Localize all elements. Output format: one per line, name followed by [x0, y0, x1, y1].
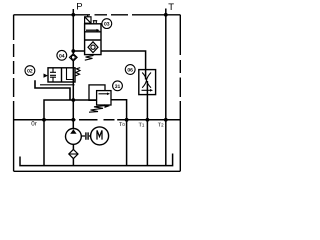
svg-text:31: 31	[115, 84, 121, 90]
svg-text:03: 03	[104, 22, 110, 28]
junction dot 0r	[42, 118, 46, 122]
wire pump to strainer	[72, 144, 74, 165]
wire y100 corner from 0r branch to valve 31	[44, 100, 97, 120]
coupling shaft	[81, 135, 90, 137]
valve 03 body box	[85, 24, 101, 55]
balloon 02	[25, 66, 35, 76]
wire y51 from P to valve 03	[73, 50, 84, 52]
wire T riser	[165, 9, 167, 166]
wire manifold T solid right part	[117, 119, 180, 121]
flow valve 06 throttle arcs	[142, 73, 151, 88]
valve 02 drain bracket	[35, 80, 70, 100]
valve 31 front box	[97, 91, 111, 105]
valve 02 subplate line	[40, 84, 75, 86]
suction strainer diamond	[69, 149, 78, 158]
valve 03 solenoid box	[85, 17, 91, 23]
valve 31 arrow	[99, 93, 108, 95]
suction strainer chord	[69, 153, 78, 155]
junction dot P on border	[71, 13, 75, 17]
coupling bars	[86, 132, 88, 139]
valve 31 spring below	[89, 105, 109, 112]
pump circle	[66, 129, 82, 145]
enclosure border right	[179, 15, 181, 172]
wire P riser	[72, 9, 74, 129]
balloon 03	[102, 19, 112, 29]
svg-text:P: P	[76, 1, 82, 12]
wire y51 from valve 03 to corner and down to valve 06	[101, 51, 146, 70]
junction dot P at y51	[71, 49, 75, 53]
valve 03 cell1 flow arrow	[86, 29, 97, 31]
valve 02 pilot arrowhead left	[44, 74, 49, 78]
valve 02 body boxes	[48, 68, 75, 82]
motor M letter	[97, 130, 102, 139]
junction dot T0	[125, 118, 129, 122]
enclosure border top	[14, 14, 181, 16]
valve 03 check diamond	[88, 42, 98, 53]
valve 02 left cell symbols	[50, 68, 56, 82]
check valve 04 ball	[71, 56, 75, 60]
balloon 04	[57, 50, 67, 60]
enclosure border bottom	[14, 170, 181, 172]
junction dot P at y100	[71, 98, 75, 102]
svg-text:06: 06	[127, 68, 133, 74]
pump outlet triangle	[70, 129, 76, 134]
balloon 31	[113, 81, 123, 91]
wire manifold 0r solid left part	[14, 119, 76, 121]
wire valve 31 outlet to T0 down-line	[111, 100, 127, 166]
junction dot T1	[146, 118, 150, 122]
valve 03 spring below	[85, 55, 94, 60]
valve 03 check ball	[91, 45, 95, 49]
valve 02 spring right	[75, 68, 80, 76]
svg-text:04: 04	[59, 53, 65, 59]
valve 03 manual override symbol	[93, 21, 97, 24]
junction dot T2 at manifold	[164, 118, 168, 122]
enclosure border left	[13, 15, 15, 172]
svg-text:02: 02	[27, 69, 33, 75]
svg-text:0r: 0r	[31, 121, 37, 128]
balloon 06	[125, 65, 135, 75]
flow valve 06 arrow	[142, 89, 151, 91]
junction dot T on border	[164, 13, 168, 17]
wire manifold dashed drain part	[79, 119, 115, 121]
flow valve 06 box	[139, 70, 156, 95]
svg-text:T: T	[168, 2, 174, 13]
junction dot P at manifold	[71, 118, 75, 122]
wire valve 06 down-line to tank	[146, 70, 148, 166]
valve 03 solenoid stub to border	[87, 15, 89, 17]
valve 02 right cell elbow	[67, 68, 74, 80]
check valve 04 diamond	[70, 54, 78, 61]
motor M circle	[91, 127, 109, 145]
wire 0r branch down to tank	[43, 120, 45, 166]
wire tank line	[20, 154, 173, 166]
valve 31 back box	[89, 85, 105, 100]
